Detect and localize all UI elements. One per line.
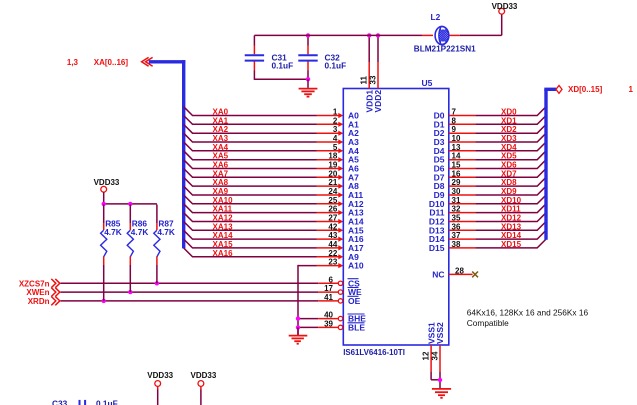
- svg-text:XRDn: XRDn: [28, 297, 50, 306]
- svg-text:33: 33: [369, 75, 378, 84]
- wire XD12: [449, 213, 546, 222]
- pin BLE bubble: [338, 325, 342, 329]
- pin VDD1 wire: [368, 35, 370, 88]
- svg-text:4.7K: 4.7K: [157, 227, 175, 237]
- svg-text:XD12: XD12: [501, 214, 522, 223]
- wire XA12: [184, 213, 344, 224]
- pin WE bubble: [338, 290, 342, 294]
- svg-text:37: 37: [452, 231, 461, 240]
- svg-text:32: 32: [452, 205, 461, 214]
- op IC U5 box: [343, 89, 449, 346]
- svg-text:XA2: XA2: [213, 125, 229, 134]
- svg-text:XA6: XA6: [213, 161, 229, 170]
- svg-text:9: 9: [452, 125, 457, 134]
- ground symbol (BHE/BLE/A10): [289, 327, 308, 343]
- svg-text:XA9: XA9: [213, 187, 229, 196]
- svg-text:XD11: XD11: [501, 205, 521, 214]
- pin name OE with overbar: [348, 296, 361, 306]
- junction dot VDD rail 11: [367, 33, 371, 37]
- wire XA15: [184, 239, 344, 250]
- svg-text:C33: C33: [52, 399, 68, 405]
- svg-text:10: 10: [452, 134, 461, 143]
- svg-text:30: 30: [452, 187, 461, 196]
- svg-text:XA8: XA8: [213, 178, 229, 187]
- junction dot C32 top: [306, 33, 310, 37]
- svg-text:1,3: 1,3: [67, 58, 79, 67]
- svg-text:XA13: XA13: [213, 222, 234, 231]
- svg-text:VDD2: VDD2: [373, 90, 383, 113]
- svg-text:XA1: XA1: [213, 116, 229, 125]
- svg-text:XD0: XD0: [501, 108, 517, 117]
- wire BLE to ground: [298, 326, 338, 328]
- svg-text:XA7: XA7: [213, 169, 229, 178]
- junction dot C32 bottom: [306, 77, 310, 81]
- wire XA10: [184, 195, 344, 206]
- svg-text:25: 25: [328, 196, 337, 205]
- svg-text:A10: A10: [348, 261, 364, 271]
- resistor R85: [101, 205, 107, 301]
- svg-text:XD5: XD5: [501, 152, 517, 161]
- wire XA9: [184, 186, 344, 197]
- wire XD3: [449, 133, 546, 142]
- power symbol VDD33 bottom: [191, 371, 217, 405]
- svg-text:U5: U5: [422, 78, 433, 88]
- svg-text:XD6: XD6: [501, 161, 517, 170]
- wire XWEn: [61, 291, 339, 293]
- svg-text:19: 19: [328, 161, 337, 170]
- wire BHE to ground: [298, 318, 338, 320]
- svg-text:IS61LV6416-10TI: IS61LV6416-10TI: [343, 348, 405, 357]
- capacitor C32: [298, 35, 317, 80]
- svg-text:22: 22: [328, 249, 337, 258]
- junction dot VSS: [438, 378, 442, 382]
- pin VDD2 wire: [377, 35, 379, 88]
- svg-text:14: 14: [452, 152, 461, 161]
- pin name BHE with overbar: [348, 314, 367, 324]
- junction dot XWEn: [128, 290, 132, 294]
- capacitor C33 (cut off): [52, 399, 118, 405]
- wire XA2: [184, 124, 344, 135]
- svg-text:XA10: XA10: [213, 196, 234, 205]
- svg-text:D15: D15: [429, 243, 445, 253]
- svg-text:XA14: XA14: [213, 231, 234, 240]
- svg-text:Compatible: Compatible: [467, 318, 509, 328]
- wire XD7: [449, 169, 546, 178]
- svg-text:XD13: XD13: [501, 222, 522, 231]
- wire XA14: [184, 230, 344, 241]
- wire XD1: [449, 116, 546, 125]
- svg-text:XA11: XA11: [213, 205, 233, 214]
- svg-text:64Kx16, 128Kx 16 and 256Kx 16: 64Kx16, 128Kx 16 and 256Kx 16: [467, 308, 589, 318]
- wire XA16: [184, 248, 344, 259]
- svg-text:XD15: XD15: [501, 240, 522, 249]
- wire XA13: [184, 222, 344, 233]
- wire resistor top rail: [104, 203, 157, 205]
- svg-text:XA3: XA3: [213, 134, 229, 143]
- off-page connector chevrons XA: [142, 57, 153, 66]
- svg-text:XD[0..15]: XD[0..15]: [568, 85, 603, 94]
- wire XD8: [449, 177, 546, 186]
- wire XD0: [449, 107, 546, 116]
- svg-text:16: 16: [452, 169, 461, 178]
- svg-text:XD4: XD4: [501, 143, 517, 152]
- svg-text:1: 1: [333, 108, 338, 117]
- wire XD10: [449, 195, 546, 204]
- bus XD vertical: [544, 89, 547, 239]
- svg-text:XA4: XA4: [213, 143, 229, 152]
- wire XD14: [449, 230, 546, 239]
- svg-text:OE: OE: [348, 296, 361, 306]
- wire XZCS7n: [61, 282, 339, 284]
- svg-text:12: 12: [422, 351, 431, 360]
- svg-text:0.1uF: 0.1uF: [272, 61, 294, 71]
- wire XA1: [184, 116, 344, 127]
- no-connect X: [472, 272, 478, 278]
- wire XA11: [184, 204, 344, 215]
- wire XD4: [449, 142, 546, 151]
- svg-text:XD10: XD10: [501, 196, 522, 205]
- svg-text:XD2: XD2: [501, 125, 517, 134]
- svg-text:XZCS7n: XZCS7n: [19, 279, 50, 288]
- junction dot R86 top: [128, 202, 132, 206]
- svg-text:27: 27: [328, 214, 337, 223]
- svg-text:VDD33: VDD33: [94, 178, 120, 187]
- svg-text:13: 13: [452, 143, 461, 152]
- svg-text:L2: L2: [431, 12, 441, 22]
- svg-text:XA[0..16]: XA[0..16]: [94, 58, 129, 67]
- svg-text:XA15: XA15: [213, 240, 234, 249]
- svg-text:0.1uF: 0.1uF: [96, 399, 118, 405]
- ground symbol (caps): [299, 79, 318, 96]
- value label C32: [325, 52, 347, 70]
- svg-text:XD8: XD8: [501, 178, 517, 187]
- junction dot R85 top: [102, 202, 106, 206]
- ground symbol (VSS): [432, 389, 451, 398]
- wire VDD rail: [254, 14, 501, 35]
- svg-text:XWEn: XWEn: [26, 288, 49, 297]
- wire XD13: [449, 222, 546, 231]
- svg-text:4.7K: 4.7K: [131, 227, 149, 237]
- wire XD2: [449, 124, 546, 133]
- wire VSS join: [431, 372, 440, 388]
- svg-text:XD1: XD1: [501, 116, 517, 125]
- svg-text:XD14: XD14: [501, 231, 522, 240]
- svg-text:VDD33: VDD33: [492, 2, 518, 11]
- svg-text:XA0: XA0: [213, 108, 229, 117]
- wire XA0: [184, 107, 344, 118]
- power symbol VDD33 bottom: [147, 371, 173, 405]
- svg-text:1: 1: [629, 85, 634, 94]
- pin name CS with overbar: [348, 278, 361, 288]
- resistor R87: [154, 205, 160, 284]
- svg-text:35: 35: [452, 214, 461, 223]
- wire A10 to ground: [298, 263, 343, 335]
- off-page connector chevrons XRDn: [51, 297, 60, 306]
- svg-text:NC: NC: [432, 269, 444, 279]
- pin NC wire: [449, 273, 473, 275]
- svg-text:BLM21P221SN1: BLM21P221SN1: [414, 45, 476, 54]
- svg-text:36: 36: [452, 222, 461, 231]
- off-page connector chevrons XWEn: [51, 288, 60, 297]
- off-page connector chevrons XZCS7n: [51, 279, 60, 288]
- wire XD15: [449, 239, 546, 248]
- svg-text:21: 21: [328, 178, 337, 187]
- power symbol VDD33 top: [492, 2, 518, 14]
- svg-text:23: 23: [328, 258, 337, 267]
- resistor R86: [127, 205, 133, 293]
- bus XA horizontal: [149, 60, 186, 63]
- svg-text:34: 34: [431, 351, 440, 360]
- inductor L2 ferrite bead: [422, 27, 463, 45]
- svg-text:VSS2: VSS2: [435, 322, 445, 344]
- wire XA5: [184, 151, 344, 162]
- wire XRDn: [61, 300, 339, 302]
- svg-text:0.1uF: 0.1uF: [325, 61, 347, 71]
- pin BHE bubble: [338, 316, 342, 320]
- svg-text:XA12: XA12: [213, 214, 234, 223]
- svg-text:XA16: XA16: [213, 249, 234, 258]
- junction dot BLE: [296, 325, 300, 329]
- wire XA7: [184, 169, 344, 180]
- power symbol VDD33 resistors: [94, 178, 120, 204]
- svg-text:7: 7: [452, 108, 457, 117]
- svg-text:20: 20: [328, 169, 337, 178]
- svg-text:18: 18: [328, 152, 337, 161]
- wire XA6: [184, 160, 344, 171]
- off-page connector diamond XD: [556, 86, 562, 94]
- bus XA vertical: [182, 60, 185, 248]
- wire XD5: [449, 151, 546, 160]
- wire XA3: [184, 133, 344, 144]
- svg-text:15: 15: [452, 161, 461, 170]
- pin name BLE with overbar: [348, 322, 366, 332]
- svg-text:29: 29: [452, 178, 461, 187]
- svg-text:VDD33: VDD33: [191, 371, 217, 380]
- svg-text:4.7K: 4.7K: [104, 227, 122, 237]
- svg-text:VDD33: VDD33: [147, 371, 173, 380]
- junction dot VDD rail 33: [376, 33, 380, 37]
- svg-text:38: 38: [452, 240, 461, 249]
- svg-text:5: 5: [333, 143, 338, 152]
- capacitor C31: [245, 35, 264, 80]
- wire cap bottom: [254, 78, 308, 80]
- svg-text:BLE: BLE: [348, 322, 365, 332]
- svg-text:2: 2: [333, 116, 338, 125]
- value label C31: [272, 52, 294, 70]
- junction dot XZCS7n: [155, 281, 159, 285]
- svg-text:XA5: XA5: [213, 152, 229, 161]
- svg-text:XD7: XD7: [501, 169, 517, 178]
- svg-text:4: 4: [333, 134, 338, 143]
- svg-text:42: 42: [328, 222, 337, 231]
- wire XD9: [449, 186, 546, 195]
- svg-text:11: 11: [360, 75, 369, 84]
- svg-text:43: 43: [328, 231, 337, 240]
- wire XA4: [184, 142, 344, 153]
- svg-text:24: 24: [328, 187, 337, 196]
- svg-text:31: 31: [452, 196, 461, 205]
- bus XD horizontal: [544, 88, 556, 91]
- pin VSS1 wire: [430, 345, 432, 372]
- svg-text:28: 28: [455, 266, 464, 275]
- junction dot XRDn: [102, 299, 106, 303]
- pin CS bubble: [338, 281, 342, 285]
- junction dot BHE: [296, 316, 300, 320]
- pin OE bubble: [338, 299, 342, 303]
- svg-text:3: 3: [333, 125, 338, 134]
- pin VSS2 wire: [439, 345, 441, 372]
- wire XD11: [449, 204, 546, 213]
- svg-text:26: 26: [328, 205, 337, 214]
- wire XA8: [184, 177, 344, 188]
- svg-text:44: 44: [328, 240, 337, 249]
- pin name WE with overbar: [348, 287, 363, 297]
- svg-text:8: 8: [452, 116, 457, 125]
- wire XD6: [449, 160, 546, 169]
- svg-text:XD9: XD9: [501, 187, 517, 196]
- svg-text:XD3: XD3: [501, 134, 517, 143]
